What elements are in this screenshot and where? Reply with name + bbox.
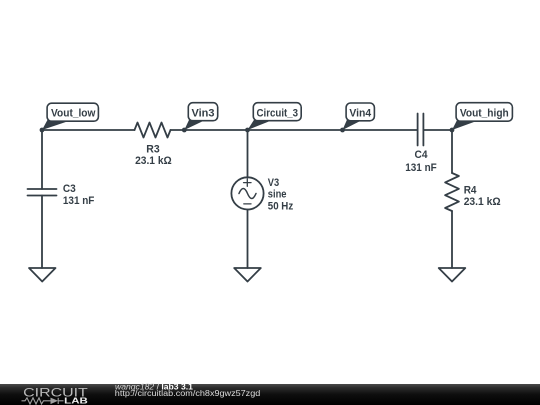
ground right [439,268,466,282]
wire Vin4 to C4 [343,129,418,131]
svg-text:23.1 kΩ: 23.1 kΩ [135,155,172,167]
net label Circuit_3 [248,103,302,130]
svg-text:http://circuitlab.com/ch8x9gwz: http://circuitlab.com/ch8x9gwz57zgd [115,389,260,398]
ground left [29,268,56,282]
net label Vin3 [184,103,217,130]
svg-text:R4: R4 [464,185,478,197]
net label Vout_low [42,103,98,130]
svg-text:V3: V3 [268,177,279,189]
wire C4 to Vout_high node [423,129,452,131]
net label Vout_high [452,103,512,130]
wire right branch upper [451,130,453,173]
svg-text:sine: sine [268,189,287,201]
resistor R3 [135,123,171,138]
wire left branch lower [41,196,43,269]
node Vin3 (junction dot) [182,128,187,133]
wire left branch upper [41,130,43,189]
node Vout_low (junction dot) [40,128,45,133]
footer title text [115,381,260,398]
footer bar [0,384,540,405]
svg-text:Vout_high: Vout_high [460,108,509,120]
wire top-left segment (Vout_low to R3) [42,129,135,131]
svg-text:Vout_low: Vout_low [51,108,96,120]
wire Vin3 to Circuit_3 node [184,129,248,131]
svg-text:Circuit_3: Circuit_3 [257,108,299,120]
resistor R4 [445,173,459,211]
wire middle branch upper [247,130,249,178]
capacitor C3 [28,189,57,196]
ground middle [234,268,261,282]
node Vout_high (junction dot) [450,128,455,133]
svg-text:C3: C3 [63,183,76,195]
voltage source V3 [231,177,263,209]
svg-text:LAB: LAB [64,396,88,405]
svg-text:23.1 kΩ: 23.1 kΩ [464,196,501,208]
svg-text:Vin4: Vin4 [349,108,371,120]
svg-text:C4: C4 [415,149,429,161]
svg-text:Vin3: Vin3 [192,108,215,120]
CircuitLab logo [22,386,89,405]
svg-text:131 nF: 131 nF [405,162,437,174]
net label Vin4 [343,103,375,130]
svg-text:50 Hz: 50 Hz [268,201,294,213]
node Vin4 (junction dot) [340,128,345,133]
node Circuit_3 (junction dot) [245,128,250,133]
svg-text:R3: R3 [146,144,159,156]
svg-text:131 nF: 131 nF [63,195,95,207]
capacitor C4 [418,114,424,146]
wire right branch lower [451,211,453,268]
wire Circuit_3 to Vin4 node [248,129,343,131]
wire middle branch lower [247,210,249,269]
wire R3 to Vin3 node [171,129,185,131]
